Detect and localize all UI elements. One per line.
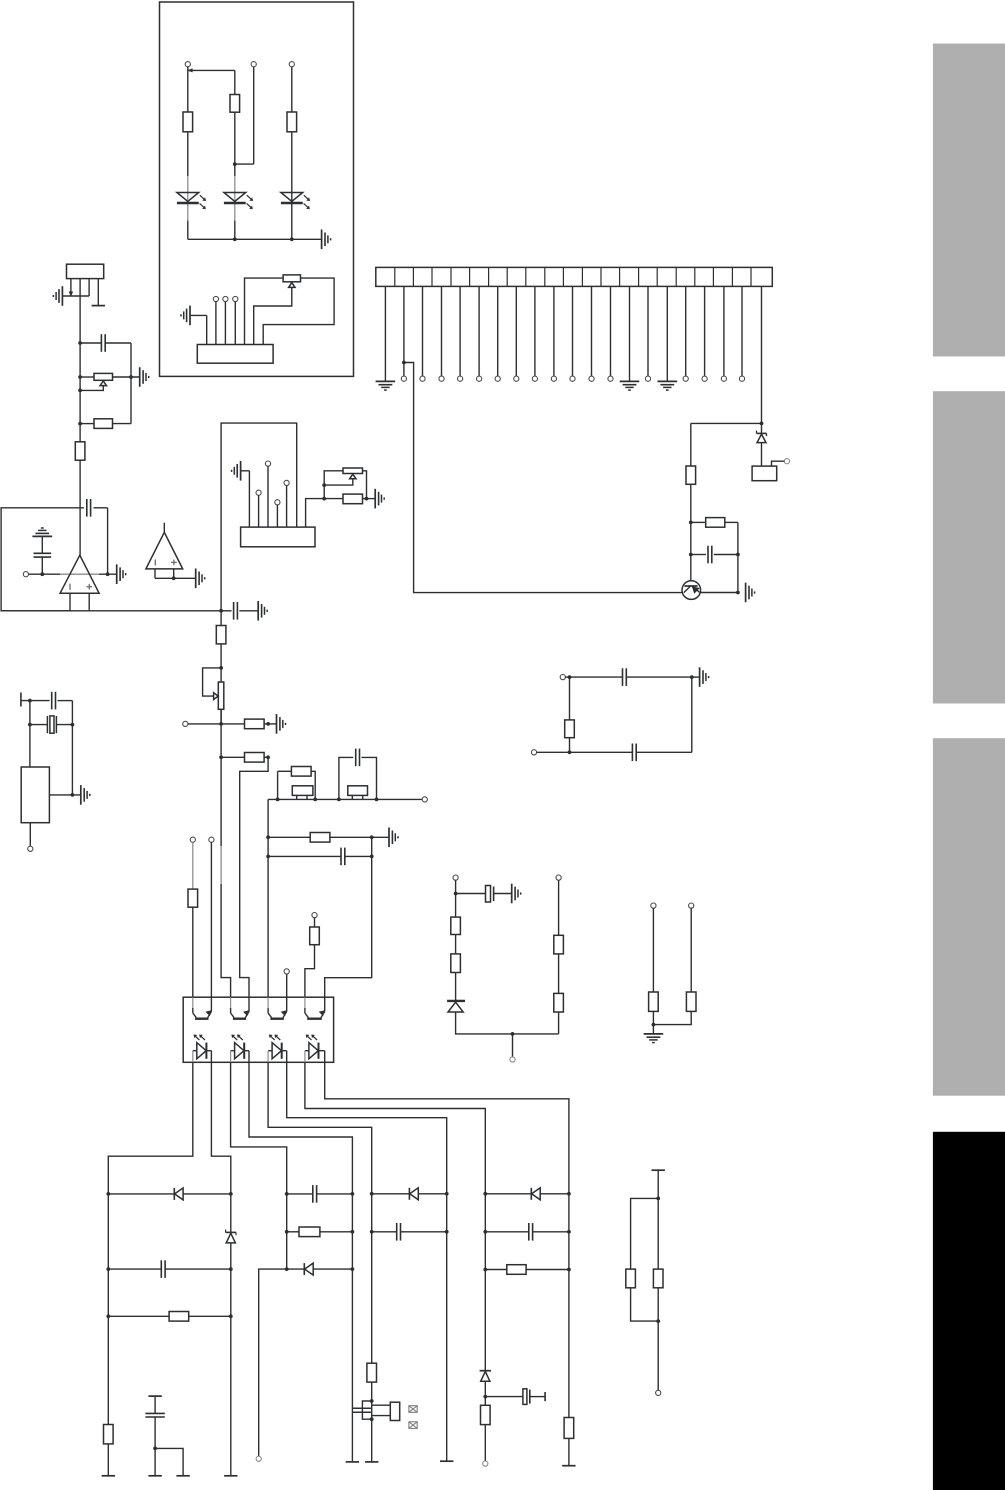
ground [746,583,755,603]
wire [80,423,131,425]
wire [537,751,633,753]
IR LED D5 [193,1035,212,1063]
wire [190,315,207,344]
wire [287,1193,353,1195]
wire [454,880,458,917]
terminal [562,1465,575,1467]
wire [761,286,763,423]
wire [163,523,165,533]
wire [276,505,278,527]
node pin [256,1456,261,1461]
stub [20,693,22,707]
node pin [532,376,537,381]
wire [245,278,284,344]
capacitor C15 [623,668,627,686]
wire [456,1012,559,1036]
node pin [312,913,317,918]
wire to transistor base [404,363,682,593]
stub [544,1392,546,1401]
wire [254,287,292,344]
capacitor C17 (polarized) [486,886,494,903]
wire [305,945,315,998]
wire [629,286,631,381]
wire [306,499,325,527]
stub [92,305,105,307]
wire [41,536,43,574]
earth ground [32,528,52,536]
wire [155,1448,183,1475]
trimmer RV4 [203,668,224,709]
diode D12 [409,1188,418,1200]
wire (gray lead) [187,176,189,239]
wire [311,771,317,801]
wire [337,757,353,801]
resistor R16 [188,889,198,907]
ground [700,667,709,687]
LED D1 [177,193,206,210]
wire [362,757,379,801]
wire [187,204,189,206]
wire [99,572,117,576]
ground [658,381,678,390]
enclosure box LED board [160,2,354,376]
wire [553,286,555,376]
LED D3 [281,193,310,210]
wire [108,1062,193,1194]
resistor R27 [565,720,575,738]
wire [568,738,572,754]
capacitor C14 (polarized) [523,1389,530,1405]
node pin [190,837,195,842]
diode D9 [174,1188,183,1200]
op-amp U1 [60,555,99,593]
resistor R32 [649,992,659,1011]
ground [140,367,149,387]
wire [267,466,269,527]
resistor R26 [653,1269,663,1288]
wire [568,1438,570,1465]
wire [219,609,223,626]
connector J2 header strip [376,267,773,286]
wire [88,594,90,611]
ground [53,286,62,306]
node pin [531,750,536,755]
phototransistor Q3 [231,997,249,1019]
wire [108,1315,231,1317]
resistor R33 [686,992,696,1011]
wire [384,286,386,381]
op-amp U2 [146,532,183,569]
terminal [224,1475,237,1477]
wire [155,569,196,580]
wire [478,286,480,376]
terminal [440,1460,453,1462]
wire [94,508,108,574]
wire [402,286,406,376]
optocoupler U3 box [183,997,333,1062]
wire [483,1381,487,1405]
wire [322,471,343,501]
resistor R29 [451,954,461,973]
ground [620,381,640,390]
wire [497,286,499,376]
wire [558,1012,560,1034]
node pin [784,459,789,464]
resistor R15 [310,833,330,843]
wire [62,279,89,296]
wire [233,67,254,176]
wire [106,1192,110,1425]
wire [656,1170,660,1269]
diode D10 (zener) [226,1230,236,1243]
wire [445,1192,449,1461]
wire [219,724,223,846]
wire [422,286,424,376]
wire [652,908,654,992]
wire [259,1269,287,1456]
wire [455,935,457,954]
wire [287,1231,353,1233]
ground [277,714,286,734]
resistor R31 [554,993,564,1012]
transistor Q6 [353,1401,400,1421]
wire [567,1192,571,1418]
node pin [551,376,556,381]
node pin [420,376,425,381]
resistor R11 [245,753,265,763]
wire [772,461,785,466]
capacitor C3 [87,499,91,517]
node pin [560,675,565,680]
wire [653,1011,691,1024]
resistor R12 [291,767,311,777]
wire [215,302,217,345]
wire [691,554,738,556]
node pin [284,969,289,974]
wire [652,1011,656,1034]
wire [370,1382,374,1403]
wire [56,723,74,727]
capacitor C2 [101,334,105,352]
node pin [422,797,427,802]
oscillator X1 [21,767,49,823]
wire [631,1288,659,1321]
capacitor C13 [529,1223,533,1241]
wire [324,479,353,485]
wire [656,1288,660,1391]
wire [685,286,687,376]
wire [610,286,612,376]
node pin [645,376,650,381]
resistor R18 [169,1312,189,1322]
wire [485,1193,569,1195]
resistor R3 [287,112,297,132]
terminal [346,1461,359,1463]
resistor R4 [686,466,696,484]
node pin [589,376,594,381]
wire (main net) [78,279,82,556]
wire [71,701,73,795]
resistor R8 [343,494,363,504]
wire [484,1425,486,1461]
wire [372,1231,447,1233]
wire [761,443,763,467]
resistor R28 [451,917,461,934]
wire [371,1419,373,1462]
node pin [570,376,575,381]
node pin [458,376,463,381]
wire [485,1396,545,1398]
wire [188,237,322,241]
wire [249,1062,352,1194]
wire [692,676,700,678]
wire [276,771,292,801]
wire [264,722,276,726]
wire [234,302,236,345]
wire [483,1192,487,1371]
node pin [651,903,656,908]
wire [234,70,236,94]
wire [29,572,61,576]
resistor R2 [230,95,240,113]
terminal [148,1475,161,1477]
node pin [477,376,482,381]
node pin [656,1390,661,1395]
connector J4 [241,527,315,547]
node pin [483,1461,488,1466]
connector J1 [197,345,273,364]
node pin [213,296,218,301]
wire [515,286,517,376]
capacitor C8 [341,848,345,866]
node pin [233,296,238,301]
node pin [284,480,289,485]
phototransistor Q5 [305,997,325,1019]
node pin [556,875,561,880]
wire [97,279,99,306]
trimmer RV2 [94,373,113,385]
wire [363,471,369,501]
resistor R19 [104,1425,114,1444]
wire [666,286,668,381]
ground [322,230,331,250]
capacitor C10 [145,1413,164,1417]
wire [691,422,764,426]
wire [691,522,740,594]
wire [314,918,316,927]
node pin [689,903,694,908]
stub [148,1395,161,1397]
wire [108,1268,231,1270]
wire [700,592,738,594]
node pin [209,837,214,842]
resistor R22 [507,1265,526,1275]
node P3 [289,62,294,67]
node pin [702,376,707,381]
wire (gray) [192,842,194,889]
wire [455,973,457,1001]
wire [187,132,189,176]
node pin [683,376,688,381]
node output [23,572,28,577]
wire [231,1062,287,1194]
wire [325,837,372,997]
wire [626,675,693,679]
resistor R5 [706,518,725,528]
node pin [265,461,270,466]
phototransistor Q4 [268,997,287,1019]
ground [376,381,396,390]
node pin [223,296,228,301]
wire [107,1444,109,1476]
node P2 [251,62,256,67]
wire [690,908,692,992]
wire [153,1417,157,1476]
wire [456,893,512,895]
ground [117,564,126,584]
terminal [176,1475,189,1477]
terminal [365,1461,378,1463]
wire [220,709,222,724]
capacitor C11 [313,1185,317,1203]
capacitor C12 [397,1223,401,1241]
wire [49,793,80,797]
node pin [739,376,744,381]
resistor R30 [554,935,564,954]
wire [631,1198,659,1269]
wire (box) [221,423,297,611]
resistor R9 [216,626,226,644]
capacitor C5 [52,692,56,710]
phototransistor Q2 [193,997,212,1019]
resistor R7 [75,442,85,460]
wire [211,1062,230,1194]
wire [221,884,231,997]
wire [80,376,140,378]
ground [181,306,190,326]
resistor R6 [94,419,113,429]
ground [196,569,205,589]
node pin [608,376,613,381]
wire [291,132,293,240]
wire [268,855,374,859]
wire [372,1193,447,1195]
wire (gray crossing) [60,573,99,575]
wire [221,755,270,759]
crystal Y1 [47,716,56,733]
wire [558,954,560,994]
node pin [510,1057,515,1062]
trimmer RV3 [343,468,363,479]
page tab 4 (black) [933,1132,1005,1490]
node pin [275,500,280,505]
terminal [102,1475,115,1477]
wire feedback loop [1,508,84,611]
wire [534,286,536,376]
wire [370,1192,374,1363]
node pin [256,490,261,495]
resistor R1 [183,112,193,132]
wire [221,610,258,612]
ground [389,828,398,848]
diode D13 [531,1188,540,1200]
LED D2 [224,193,253,210]
wire [58,700,73,702]
wire (to mid net) [1,610,221,612]
IR LED D6 [231,1035,249,1063]
node pin [721,376,726,381]
wire [723,286,725,376]
ground [375,489,384,509]
wire [441,286,443,376]
wire [485,1269,569,1271]
node pin [439,376,444,381]
node pin [28,846,33,851]
wire [154,1396,156,1413]
ground [512,884,521,904]
page tab 2 (gray) [933,391,1005,703]
wire [647,286,649,376]
wire [690,423,692,466]
wire [636,677,692,752]
wire [80,386,103,391]
diode D15 [447,1001,465,1012]
wire [287,1062,447,1194]
resistor R20 [299,1227,320,1237]
ground [258,601,267,621]
IR LED D7 [268,1035,287,1063]
node pin [183,721,188,726]
wire [704,286,706,376]
diode D14 (zener) [480,1371,491,1382]
node P1 [185,62,190,67]
wire [287,1268,353,1270]
wire [324,498,375,500]
page tab 1 (gray) [933,44,1005,357]
resistor R24 [564,1418,574,1439]
resistor R10 [245,719,265,729]
wire [21,699,50,703]
wire (gray) [220,846,222,884]
wire [188,722,245,726]
wire [29,823,31,847]
relay K1 [752,466,777,481]
wire [263,278,334,344]
resistor R21 [367,1363,377,1382]
wire [741,286,743,376]
transistor Q1 [682,581,701,600]
wire [258,495,260,527]
capacitor C1 [708,546,712,564]
wire [558,880,560,935]
diode D11 [304,1263,313,1275]
wire [219,644,223,724]
wire [591,286,593,376]
resistor R25 [626,1269,636,1288]
wire [569,677,571,720]
node pin [401,376,406,381]
wire [266,799,270,997]
page tab 3 (gray) [933,738,1005,1095]
wire [761,423,763,433]
wire [689,484,693,581]
connector J3 [67,264,104,278]
capacitor C6 [234,602,238,620]
wire [188,67,235,112]
trimmer RV1 [283,275,300,288]
ground [81,785,90,805]
wire [241,471,250,527]
